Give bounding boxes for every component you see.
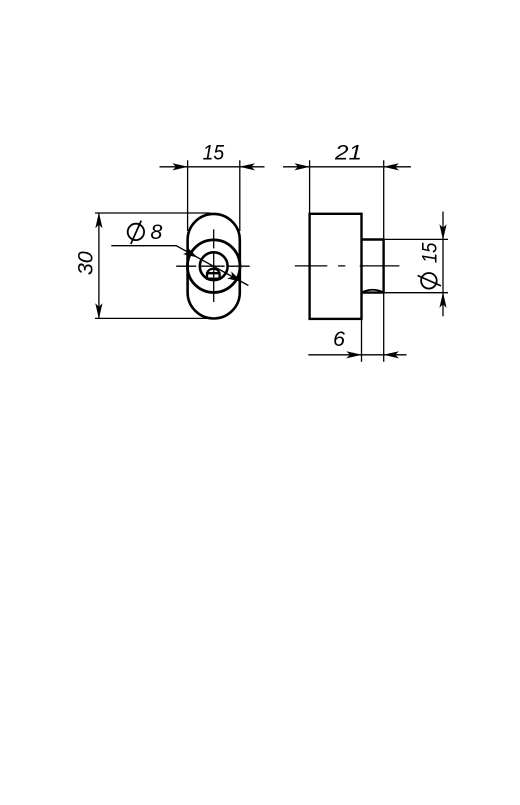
dimension 21 line bbox=[283, 166, 411, 168]
horizontal centerline bbox=[176, 265, 250, 267]
dim15 arrow right bbox=[239, 163, 255, 170]
dim6 arrow right bbox=[383, 351, 399, 358]
dimension D15 line bbox=[442, 212, 444, 317]
dim15 arrow left bbox=[172, 163, 188, 170]
dim21 arrow left bbox=[294, 163, 310, 170]
dimension 6 extension line bbox=[361, 319, 363, 362]
dimension D15 extension lines bbox=[385, 239, 448, 292]
dim30 arrow top bbox=[95, 213, 102, 229]
dim6 arrow left bbox=[346, 351, 362, 358]
dimension text 30 (rotated) bbox=[73, 251, 97, 275]
side view centerline bbox=[295, 265, 400, 267]
dimD15 arrow top bbox=[439, 224, 446, 240]
dim21 arrow right bbox=[383, 163, 399, 170]
dimension 21 extension lines bbox=[310, 160, 384, 361]
svg-text:8: 8 bbox=[150, 220, 162, 244]
dimension label D15 (rotated) bbox=[417, 242, 441, 289]
boss bottom tangent arc bbox=[362, 290, 383, 292]
oval rosette outline (stadium 15x30) bbox=[188, 214, 240, 319]
dimension 30 line bbox=[98, 213, 100, 318]
hole circle D8 bbox=[200, 252, 228, 280]
leader arrow 2 bbox=[227, 271, 244, 285]
boss circle D15 bbox=[187, 240, 240, 293]
svg-text:6: 6 bbox=[333, 327, 345, 351]
key cam profile inside D8 bbox=[207, 269, 220, 274]
dimension 6 line bbox=[308, 354, 406, 356]
dimension 30 extension lines bbox=[95, 213, 211, 318]
svg-text:21: 21 bbox=[334, 141, 362, 165]
dimD15 arrow bottom bbox=[439, 292, 446, 308]
leader arrow 1 bbox=[183, 247, 200, 261]
svg-text:15: 15 bbox=[203, 140, 225, 164]
dim30 arrow bottom bbox=[95, 303, 102, 319]
boss outline bbox=[362, 240, 384, 293]
body rectangle bbox=[310, 214, 362, 319]
vertical centerline bbox=[213, 229, 215, 302]
label D8 leader bbox=[111, 246, 248, 286]
diameter symbol of D8 bbox=[128, 224, 144, 240]
svg-text:15: 15 bbox=[417, 242, 441, 263]
svg-text:30: 30 bbox=[73, 251, 97, 275]
dimension 15 extension lines bbox=[188, 160, 240, 231]
dimension 15 line bbox=[160, 166, 265, 168]
